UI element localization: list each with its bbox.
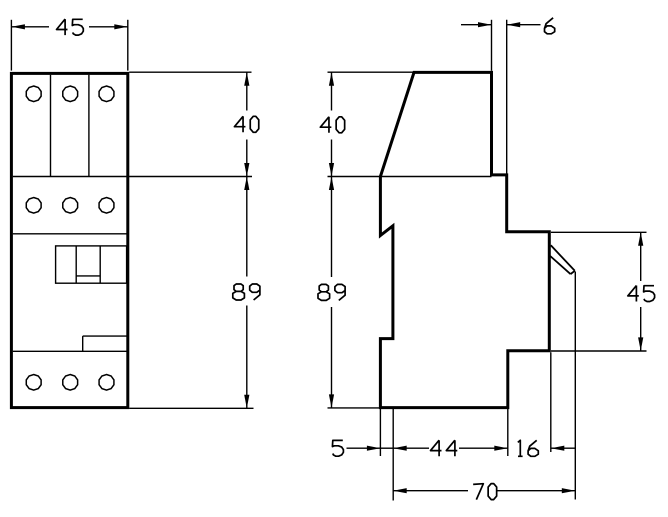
dimension 45 width extension line left	[10, 20, 12, 71]
side dimension 89 line lower	[331, 307, 333, 408]
din rail latch lower edge	[550, 256, 570, 274]
front view label plate line	[13, 233, 127, 235]
dimension 45 width line right segment	[89, 26, 128, 28]
dimension 44 arrow left	[393, 446, 407, 451]
front view upper terminal cover line	[13, 176, 252, 178]
front view toggle button line	[76, 275, 100, 277]
front dimension 40 line lower	[246, 140, 248, 177]
front dimension 89 label	[233, 284, 260, 300]
dimension 5 line tail	[347, 447, 381, 449]
dimension 45 width arrow right	[114, 24, 128, 29]
terminal screw middle row 3	[99, 198, 114, 214]
right dimension 45 label	[628, 286, 655, 302]
side dimension 40 line lower	[331, 140, 333, 177]
right dimension 45 arrow up	[638, 232, 643, 246]
side top edge extension line	[328, 71, 414, 73]
right dimension 45 arrow down	[638, 337, 643, 351]
front view pole divider right	[88, 75, 90, 177]
front dimension 89 line lower	[246, 306, 248, 409]
front view lower terminal cover line	[13, 350, 127, 352]
front view reset tab left	[82, 336, 84, 351]
dimension 45 width line left segment	[11, 26, 49, 28]
terminal screw middle row 2	[63, 198, 78, 214]
side dimension 40 arrow down	[329, 163, 334, 177]
extension line body bottom left	[379, 409, 381, 456]
dimension 45 width extension line right	[127, 20, 129, 71]
dimension 45 width label	[57, 19, 84, 35]
terminal screw top row 2	[63, 86, 78, 102]
right dimension 45 extension top	[551, 231, 647, 233]
extension line body bottom right	[507, 409, 509, 456]
front dimension 89 arrow down	[244, 395, 249, 409]
side view body outline	[380, 72, 549, 407]
terminal screw bottom row 2	[63, 375, 78, 391]
dimension 6 label	[545, 18, 555, 34]
latch tip extension line	[574, 272, 576, 500]
side dimension 40 label	[320, 117, 344, 133]
dimension 5 span line	[380, 447, 393, 449]
dimension 70 line right	[497, 490, 575, 492]
side bottom edge extension line	[328, 407, 380, 409]
dimension 6 extension line left	[491, 20, 493, 71]
dimension 16 label	[518, 440, 539, 456]
front view toggle divider right	[99, 246, 101, 283]
dimension 44 line right	[459, 447, 508, 449]
front view toggle switch frame	[56, 246, 127, 283]
dimension 70 line left	[393, 490, 468, 492]
dimension 16 arrow	[551, 446, 565, 451]
front bottom edge extension line	[129, 407, 253, 409]
dimension 5 label	[332, 440, 343, 456]
front dimension 89 arrow up	[244, 177, 249, 191]
side dimension 40 arrow up	[329, 72, 334, 86]
terminal screw bottom row 3	[99, 375, 114, 391]
dimension 45 width arrow left	[11, 24, 25, 29]
dimension 5 arrow	[367, 446, 381, 451]
right dimension 45 line lower	[640, 307, 642, 351]
terminal screw top row 3	[99, 86, 114, 102]
side dimension 89 arrow down	[329, 394, 334, 408]
front view outline	[11, 73, 127, 407]
dimension 44 label	[431, 440, 458, 456]
extension line notch edge	[392, 409, 394, 501]
front dimension 40 arrow down	[244, 163, 249, 177]
right dimension 45 line upper	[640, 232, 642, 281]
side dimension 89 label	[318, 284, 345, 300]
side view cover split line	[328, 176, 492, 178]
side dimension 40 line upper	[331, 72, 333, 110]
dimension 70 arrow left	[393, 488, 407, 493]
extension line rail step	[550, 352, 552, 452]
side dimension 89 arrow up	[329, 177, 334, 191]
dimension 6 arrow left	[478, 22, 492, 27]
din rail latch upper edge	[551, 245, 575, 270]
terminal screw middle row 1	[26, 198, 41, 214]
terminal screw top row 1	[26, 86, 41, 102]
front dimension 89 line upper	[246, 177, 248, 277]
dimension 70 arrow right	[562, 488, 576, 493]
dimension 70 label	[473, 484, 497, 500]
front dimension 40 label	[234, 116, 258, 132]
front view pole divider left	[50, 75, 52, 177]
front top edge extension line	[129, 71, 251, 73]
dimension 16 line tail	[551, 447, 576, 449]
dimension 6 arrow right	[507, 22, 521, 27]
dimension 44 arrow right	[494, 446, 508, 451]
front view toggle divider left	[75, 246, 77, 283]
side dimension 89 line upper	[331, 177, 333, 278]
front dimension 40 line upper	[246, 72, 248, 110]
dimension 6 line left tail	[461, 24, 492, 26]
front dimension 40 arrow up	[244, 72, 249, 86]
dimension 6 line right tail	[507, 24, 541, 26]
front view reset tab top	[83, 335, 127, 337]
dimension 6 extension line right	[506, 20, 508, 174]
terminal screw bottom row 1	[26, 375, 41, 391]
din rail latch end cap	[571, 271, 575, 274]
dimension 44 line left	[393, 447, 429, 449]
right dimension 45 extension bottom	[551, 350, 647, 352]
